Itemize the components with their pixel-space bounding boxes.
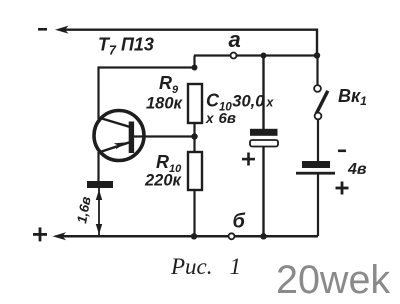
junction dot: bottom rail / R10: [191, 233, 197, 239]
battery cell 1.6v plate: [87, 181, 113, 188]
wire: right vertical from top corner down to node a line: [316, 29, 318, 57]
minus polarity label top-left: [38, 28, 47, 31]
label 180к: [146, 95, 184, 113]
plus label at battery: [336, 182, 349, 195]
junction dot: a-line / switch branch: [314, 52, 320, 58]
svg-text:4в: 4в: [347, 161, 367, 178]
svg-text:20wek: 20wek: [276, 258, 390, 302]
junction dot: a-line / C10 branch: [261, 53, 267, 59]
switch Bk1: [314, 56, 328, 162]
wire: node a horizontal line: [194, 54, 317, 56]
svg-text:180к: 180к: [146, 95, 184, 113]
resistor R9: [188, 84, 202, 137]
svg-text:Т7 П13: Т7 П13: [98, 35, 154, 58]
wire: corner from a-line down to collector node: [193, 56, 195, 69]
wire: emitter vertical lead below transistor: [97, 152, 99, 182]
wire: collector vertical lead into transistor: [97, 67, 99, 120]
label T7 P13: [98, 35, 154, 58]
battery B 4в: [296, 161, 335, 236]
caption Рис. 1: [170, 254, 241, 279]
node a terminal (open circle): [231, 53, 237, 59]
capacitor C10 (electrolytic): [250, 56, 278, 237]
label Bk1: [338, 86, 367, 108]
label 4в: [347, 161, 367, 178]
svg-text:1,6в: 1,6в: [74, 195, 93, 224]
svg-text:С1030,0х: С1030,0х: [206, 91, 274, 114]
svg-text:б: б: [233, 211, 246, 233]
wire: collector horizontal run: [98, 66, 195, 68]
junction dot: bottom rail / C10: [260, 233, 266, 239]
label 220к: [144, 172, 183, 190]
wire: emitter lead from cell to bottom rail: [98, 188, 100, 236]
svg-text:а: а: [229, 27, 241, 52]
wire: bottom horizontal rail with left arrowhead: [53, 232, 319, 240]
svg-text:220к: 220к: [144, 172, 183, 190]
transistor Q (П13, PNP): [94, 111, 144, 161]
node b label: [233, 211, 246, 233]
label х 6в: [205, 110, 236, 127]
wire: base lead: [134, 135, 195, 137]
plus label at C10: [242, 153, 255, 166]
junction dot: base / R9 / R10: [191, 133, 197, 139]
node b terminal (open circle): [229, 233, 235, 239]
label 1,6в (rotated): [74, 195, 93, 224]
svg-text:R9: R9: [159, 73, 179, 96]
label R9: [159, 73, 179, 96]
voltage annotation arrows 1,6в: [96, 190, 102, 235]
node a label: [229, 27, 241, 52]
minus label at battery: [338, 150, 346, 153]
plus polarity label bottom-left: [33, 227, 47, 241]
svg-text:х6в: х6в: [205, 110, 236, 127]
label R10: [156, 152, 182, 175]
resistor R10: [188, 137, 202, 237]
wire: top horizontal rail with left arrowhead: [55, 26, 317, 34]
svg-text:Рис.1: Рис.1: [170, 254, 241, 279]
watermark 20wek: [276, 258, 390, 302]
junction dot: collector / R9 top: [192, 65, 198, 71]
svg-text:Вк1: Вк1: [338, 86, 367, 108]
label C10 30,0 х: [206, 91, 274, 114]
